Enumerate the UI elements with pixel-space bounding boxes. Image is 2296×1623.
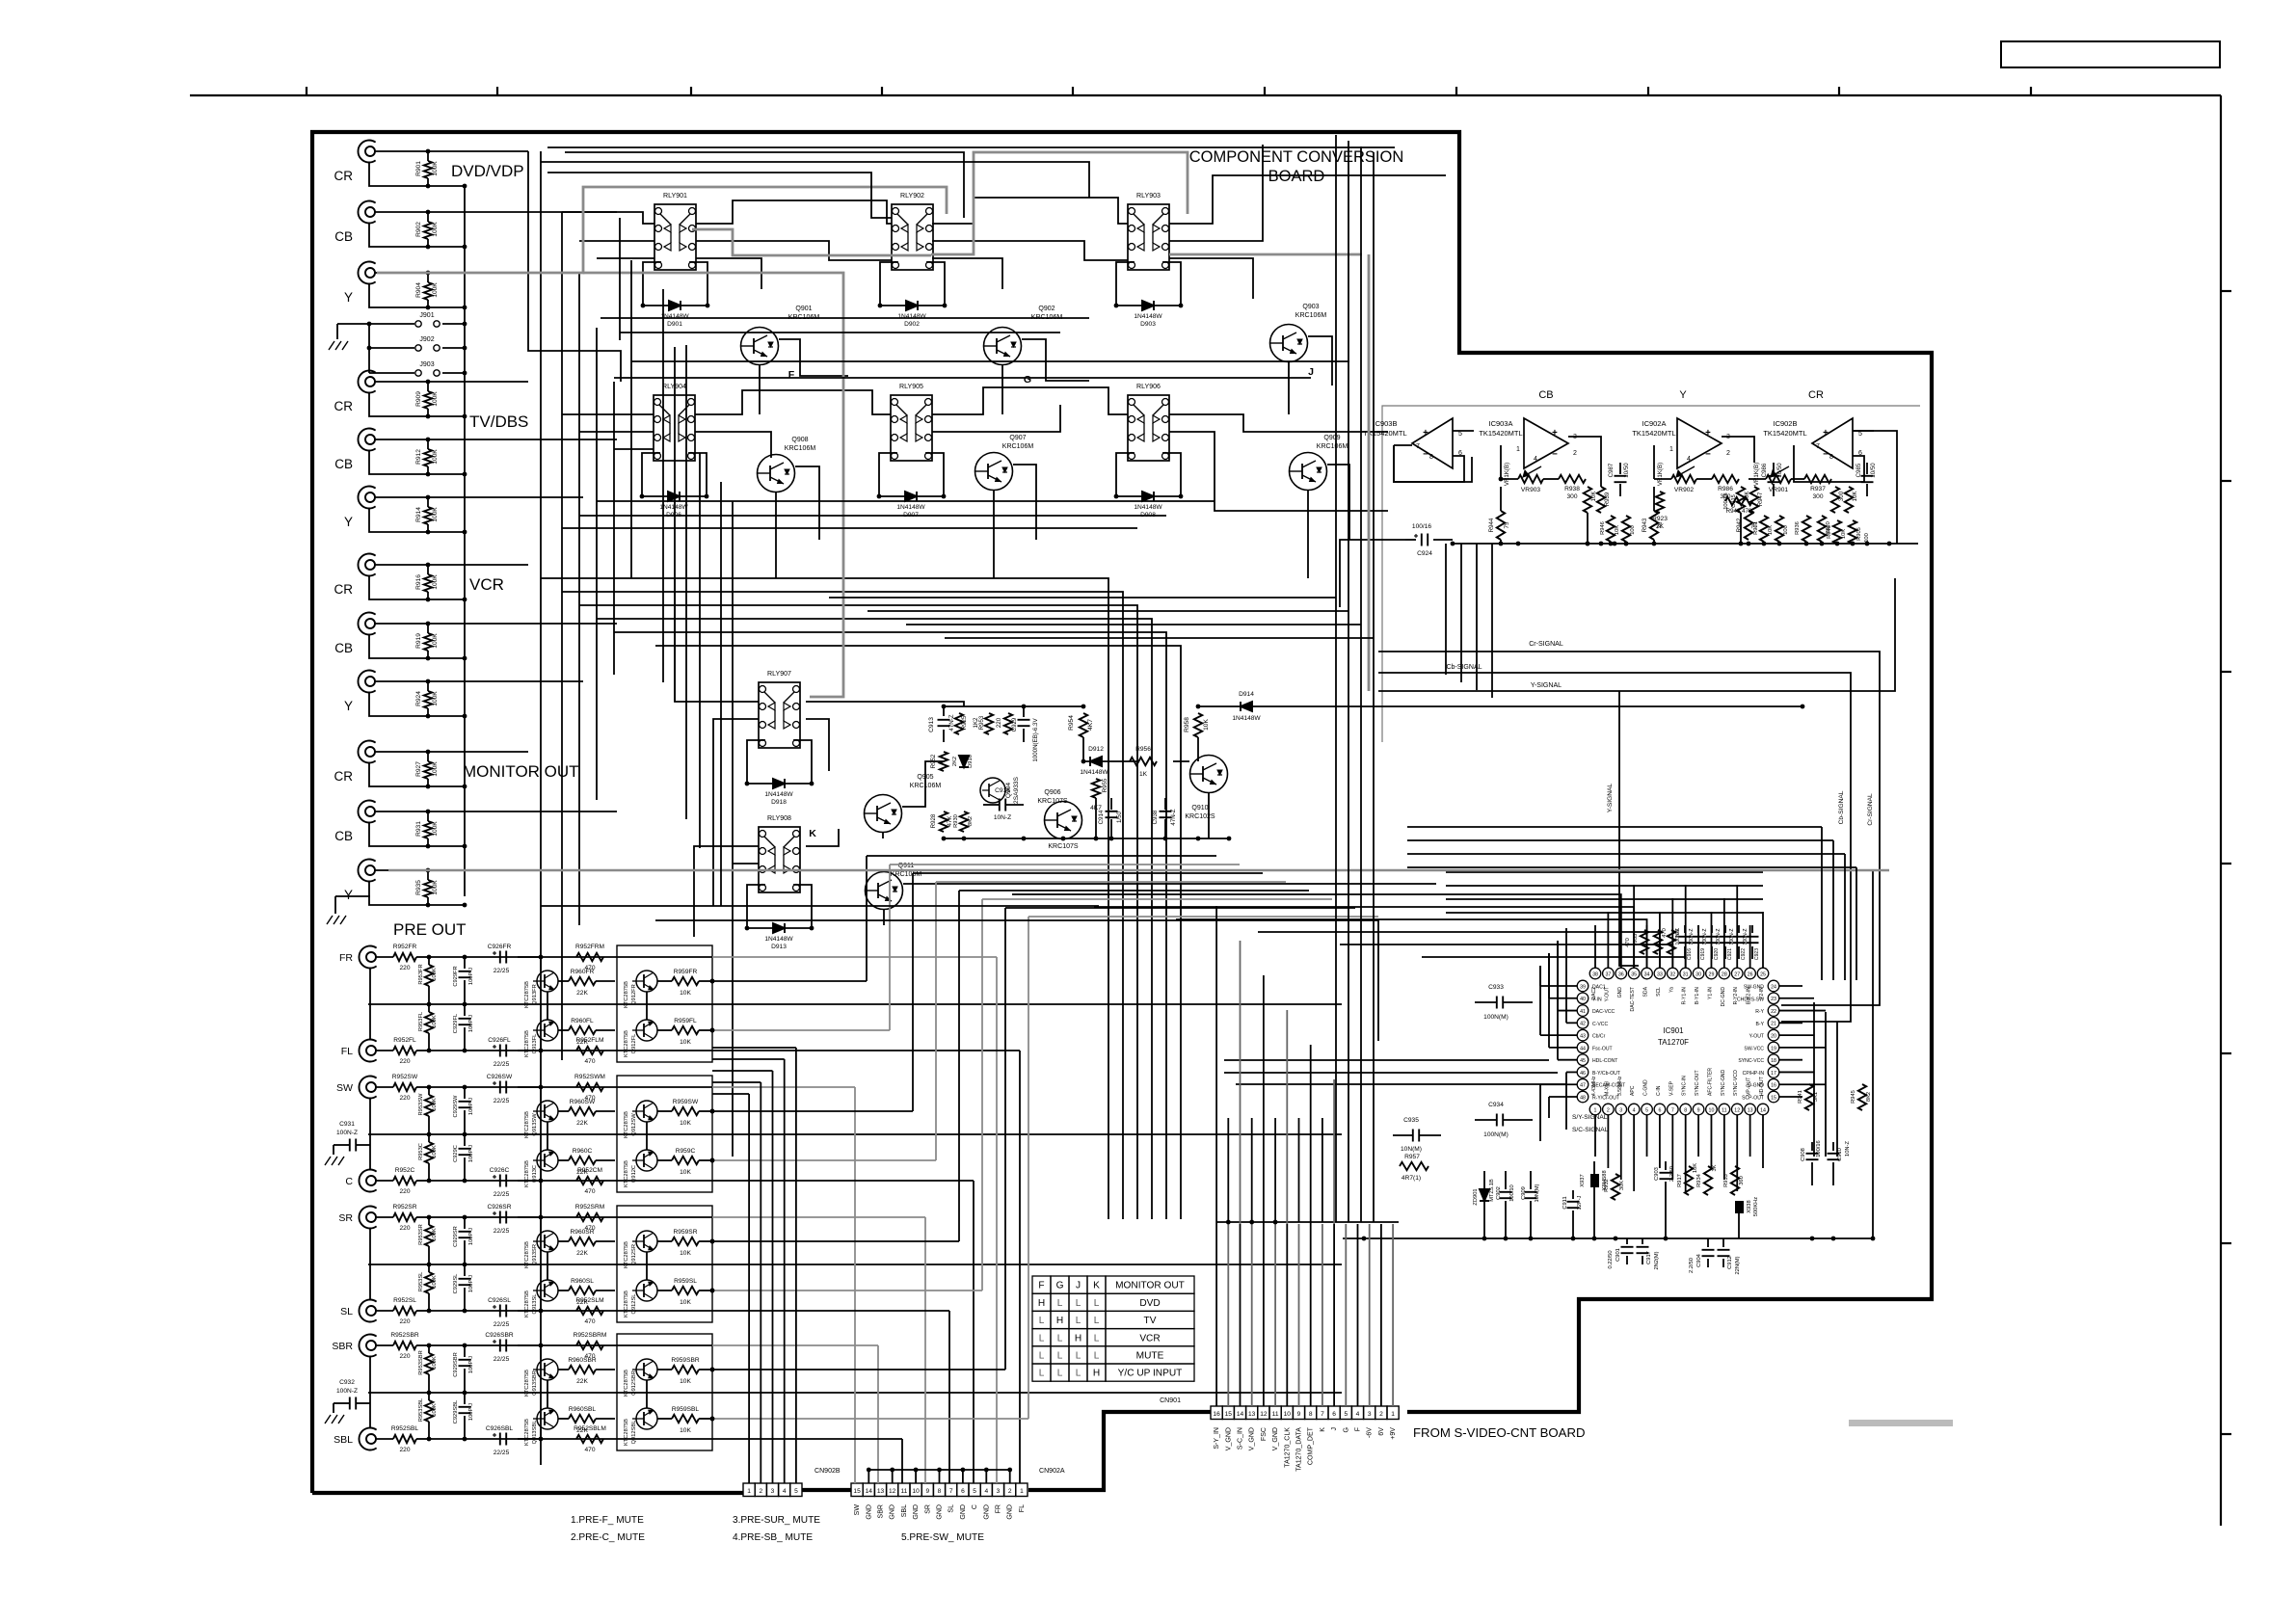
ground C932 — [333, 1403, 334, 1413]
svg-text:SBR: SBR — [332, 1341, 353, 1352]
wire — [369, 693, 465, 716]
svg-text:C922: C922 — [1741, 948, 1747, 960]
svg-text:GND: GND — [913, 1504, 920, 1520]
pin 5 — [1642, 1104, 1653, 1115]
transistor Q912SBL KTC2875B — [636, 1408, 657, 1429]
svg-text:C-VCC: C-VCC — [1592, 1022, 1608, 1027]
svg-text:C921: C921 — [1727, 948, 1733, 960]
svg-text:CB: CB — [334, 829, 353, 843]
svg-text:32: 32 — [1669, 971, 1675, 977]
svg-text:F: F — [1355, 1426, 1362, 1431]
wire — [375, 564, 528, 566]
transistor Q911 KRC105M — [866, 872, 903, 910]
svg-text:IC903B: IC903B — [1374, 419, 1398, 428]
resistor R917 10K — [1685, 1166, 1693, 1195]
capacitor C916 10N-Z — [999, 799, 1001, 811]
svg-text:B-Y: B-Y — [1756, 1022, 1765, 1027]
wires stage — [518, 1344, 541, 1346]
wire preout channel risers to CN902A — [712, 956, 997, 958]
svg-text:SCL: SCL — [1656, 987, 1662, 997]
diode D903 1N4148W — [1116, 305, 1181, 306]
svg-text:100/16: 100/16 — [1412, 523, 1432, 530]
wire black top h y179 — [547, 173, 892, 218]
wire IC left feed horizontals — [1224, 1059, 1549, 1061]
svg-text:R936: R936 — [1795, 521, 1801, 535]
wire feedback loop — [1853, 430, 1874, 432]
resistor R960SL 22K — [569, 1287, 596, 1294]
svg-text:Q910: Q910 — [1191, 805, 1208, 811]
svg-text:4K7: 4K7 — [1087, 719, 1094, 731]
wire horizontals relay row gap — [601, 317, 1089, 319]
svg-text:12: 12 — [1260, 1411, 1268, 1418]
transistor Q910 KRC102S — [1190, 756, 1228, 793]
svg-text:10/50: 10/50 — [1623, 463, 1630, 478]
capacitor C922 100N-Z — [1733, 936, 1746, 938]
capacitor C932 100N-Z — [349, 1397, 351, 1410]
svg-text:Y-SIGNAL: Y-SIGNAL — [1607, 784, 1614, 813]
RCA jack R901 input — [358, 141, 375, 163]
pin 42 — [1577, 1018, 1589, 1029]
capacitor C935 10N(M) — [1412, 1130, 1414, 1142]
svg-text:TV: TV — [1144, 1316, 1157, 1326]
wire — [369, 509, 465, 532]
wire RLY907 area links — [675, 578, 759, 702]
svg-text:10: 10 — [1284, 1411, 1292, 1418]
svg-text:COMP_DET: COMP_DET — [1308, 1426, 1315, 1465]
svg-text:D913: D913 — [771, 944, 787, 950]
capacitor C929SBL 100P-J — [459, 1406, 471, 1408]
diode D901 1N4148W — [643, 305, 707, 306]
wire Y-SIGNAL — [1378, 578, 1895, 691]
svg-text:SBL: SBL — [901, 1504, 908, 1517]
svg-text:Q912SR: Q912SR — [631, 1244, 637, 1265]
svg-text:Cr-SIGNAL: Cr-SIGNAL — [1867, 793, 1874, 826]
svg-text:1N4148W: 1N4148W — [1134, 504, 1162, 511]
svg-text:VCR: VCR — [1139, 1333, 1160, 1344]
svg-text:1000N(EB)-6.3V: 1000N(EB)-6.3V — [1032, 718, 1039, 762]
resistor R959FR 10K — [672, 977, 699, 985]
wire right vertical gnd — [1872, 870, 1874, 1238]
wire — [369, 823, 465, 846]
wire row2 inputs — [562, 413, 654, 415]
svg-text:34: 34 — [1644, 971, 1650, 977]
svg-text:D912: D912 — [1088, 746, 1104, 753]
svg-text:R946: R946 — [1827, 525, 1832, 539]
svg-text:220: 220 — [399, 1225, 410, 1232]
svg-text:22K: 22K — [576, 1120, 588, 1127]
svg-text:Q912C: Q912C — [631, 1165, 637, 1183]
svg-text:L: L — [1094, 1333, 1100, 1344]
svg-text:C913: C913 — [928, 717, 935, 732]
svg-text:R959C: R959C — [676, 1148, 696, 1155]
resistor R952SBRM 470 — [576, 1342, 603, 1349]
svg-text:7: 7 — [949, 1488, 953, 1495]
svg-text:100N(M): 100N(M) — [1483, 1131, 1508, 1138]
capacitor C933 100N(M) — [1496, 997, 1498, 1009]
svg-text:10K: 10K — [680, 1039, 691, 1046]
relay RLY904 — [654, 395, 695, 461]
resistor R960SBR 22K — [569, 1366, 596, 1373]
svg-text:5.PRE-SW_ MUTE: 5.PRE-SW_ MUTE — [901, 1532, 984, 1543]
pin 14 — [1757, 1104, 1769, 1115]
RCA jack SW — [359, 1077, 376, 1099]
wire bundle verticals to CN901 — [1215, 1224, 1217, 1406]
svg-text:C924: C924 — [1417, 550, 1432, 557]
svg-text:100P-J: 100P-J — [468, 968, 474, 985]
svg-text:CR: CR — [334, 582, 354, 597]
svg-text:L: L — [1076, 1369, 1081, 1379]
svg-text:J: J — [1076, 1281, 1081, 1291]
svg-text:2: 2 — [1008, 1488, 1012, 1495]
svg-text:C933: C933 — [1488, 984, 1504, 991]
svg-text:SBR: SBR — [878, 1504, 885, 1518]
svg-text:C: C — [345, 1176, 353, 1187]
resistor R959SL 10K — [672, 1287, 699, 1294]
resistor R902 100K — [427, 212, 429, 222]
resistor R953SL 100K — [425, 1272, 433, 1293]
op-amp IC903A TK15420MTL — [1524, 418, 1568, 468]
svg-text:1: 1 — [1669, 446, 1673, 453]
svg-text:Q912SBL: Q912SBL — [631, 1421, 637, 1445]
wire CN901 riser joins — [1216, 1221, 1399, 1223]
svg-text:12P-J: 12P-J — [1577, 1195, 1583, 1210]
svg-text:1: 1 — [1516, 446, 1520, 453]
RCA jack R902 input — [358, 201, 375, 224]
svg-text:TK15420MTL: TK15420MTL — [1763, 429, 1806, 438]
svg-text:47N-Z: 47N-Z — [948, 714, 955, 731]
resistor 10K v — [1845, 487, 1853, 513]
capacitor C938 47N-Z — [1160, 811, 1172, 812]
svg-text:C923: C923 — [1754, 948, 1760, 960]
svg-text:220: 220 — [399, 1318, 410, 1325]
capacitor C901 0.22/50 — [1621, 1246, 1634, 1248]
svg-text:KTC2875B: KTC2875B — [524, 981, 530, 1008]
svg-text:100P-J: 100P-J — [468, 1015, 474, 1032]
wire bus x637 — [613, 382, 615, 675]
transistor Q912SR KTC2875B — [636, 1231, 657, 1252]
svg-text:J: J — [1331, 1427, 1338, 1431]
svg-text:39: 39 — [1580, 984, 1586, 990]
svg-text:Q901: Q901 — [795, 306, 812, 312]
capacitor C926FL 22/25 — [499, 1045, 501, 1057]
svg-text:19: 19 — [1771, 1046, 1776, 1051]
svg-text:SBL: SBL — [334, 1434, 353, 1446]
resistor R941 5K1 — [1805, 1084, 1813, 1110]
svg-text:L: L — [1094, 1351, 1100, 1362]
capacitor C926SL 22/25 — [499, 1305, 501, 1317]
wire channel rails — [432, 1086, 712, 1088]
svg-text:Cb/Cr: Cb/Cr — [1592, 1034, 1606, 1040]
svg-text:CB: CB — [334, 641, 353, 655]
svg-text:J903: J903 — [419, 361, 434, 368]
svg-text:FR: FR — [339, 952, 353, 964]
pin 21 — [1768, 1018, 1779, 1029]
svg-text:13: 13 — [1748, 1107, 1753, 1113]
wire gray path to opamps — [1368, 254, 1371, 691]
svg-text:4: 4 — [1356, 1411, 1360, 1418]
wire gray path relay1 out — [692, 229, 931, 255]
svg-text:47K: 47K — [947, 815, 953, 827]
svg-text:J902: J902 — [419, 336, 434, 343]
svg-text:1N4148W: 1N4148W — [1134, 313, 1162, 320]
gray revision bar — [1849, 1420, 1953, 1426]
wire Cb-SIGNAL — [1378, 673, 1851, 1022]
wire gray path relay3 out — [1169, 253, 1362, 256]
capacitor C916 100N-Z — [1679, 936, 1692, 938]
wire IC901 right stubs — [1779, 985, 1802, 987]
resistor R904 100K — [427, 273, 429, 282]
svg-text:100P-J: 100P-J — [468, 1356, 474, 1373]
svg-text:CN902A: CN902A — [1039, 1468, 1065, 1475]
wire channel rails — [432, 956, 712, 958]
svg-text:45: 45 — [1580, 1058, 1586, 1064]
svg-text:Y: Y — [344, 699, 353, 713]
svg-text:2.2/50: 2.2/50 — [1689, 1258, 1695, 1273]
svg-text:Y/C UP INPUT: Y/C UP INPUT — [1118, 1369, 1183, 1379]
transistor Q912C KTC2875B — [636, 1150, 657, 1171]
svg-text:C929SBR: C929SBR — [453, 1352, 459, 1376]
svg-text:10K: 10K — [680, 1427, 691, 1434]
svg-text:10K: 10K — [680, 1299, 691, 1306]
svg-text:4R7(1): 4R7(1) — [1402, 1175, 1421, 1182]
svg-text:R912: R912 — [415, 449, 422, 465]
wire — [369, 224, 465, 247]
svg-text:100N-Z: 100N-Z — [1702, 929, 1708, 945]
pin 43 — [1577, 1029, 1589, 1041]
relay RLY901 — [654, 204, 696, 270]
svg-text:TK15420MTL: TK15420MTL — [1479, 429, 1522, 438]
capacitor C929FL 100P-J — [459, 1018, 471, 1020]
svg-text:APC: APC — [1630, 1085, 1636, 1096]
svg-text:5: 5 — [1645, 1107, 1648, 1113]
pin 18 — [1768, 1054, 1779, 1066]
svg-text:22K: 22K — [576, 1250, 588, 1257]
wire top h1 — [528, 151, 621, 382]
wire relay to diode — [1116, 453, 1135, 496]
wire row2 to bundle — [597, 500, 1215, 502]
RCA jack R912 input — [358, 429, 375, 451]
resistor 10K vertical — [1737, 487, 1745, 513]
diode D908 1N4148W — [1116, 495, 1181, 497]
wire RLY901 right to RLY902 — [696, 200, 892, 224]
resistor R957 4R7(1) — [1400, 1162, 1428, 1170]
svg-text:220: 220 — [399, 1188, 410, 1195]
frame top ticks — [306, 87, 307, 95]
svg-text:K: K — [809, 828, 816, 839]
svg-text:R923: R923 — [1652, 516, 1668, 522]
svg-text:R953: R953 — [978, 715, 985, 730]
resistor R932 30K — [1612, 1174, 1619, 1200]
svg-text:KTC2875B: KTC2875B — [524, 1160, 530, 1187]
wire IC right verticals — [1813, 1002, 1815, 1157]
svg-text:FSC: FSC — [1261, 1427, 1268, 1441]
pin 40 — [1577, 993, 1589, 1004]
resistor R952SBLM 470 — [576, 1435, 603, 1443]
svg-text:6V: 6V — [1378, 1427, 1385, 1436]
transistor Q903 KRC106M — [1270, 325, 1308, 362]
svg-text:C931: C931 — [339, 1121, 355, 1128]
svg-text:DVD/VDP: DVD/VDP — [451, 162, 524, 180]
svg-text:5: 5 — [794, 1488, 798, 1495]
svg-text:10K: 10K — [1841, 529, 1847, 539]
svg-text:220: 220 — [399, 1353, 410, 1360]
block rect — [617, 1076, 712, 1192]
svg-text:SYNC-VCO: SYNC-VCO — [1733, 1070, 1739, 1096]
svg-text:L: L — [1039, 1333, 1045, 1344]
svg-text:100N-Z: 100N-Z — [1716, 929, 1722, 945]
svg-text:100K: 100K — [432, 1098, 438, 1111]
svg-text:R953SL: R953SL — [418, 1272, 424, 1292]
svg-text:KRC106M: KRC106M — [1295, 312, 1327, 319]
svg-text:R953SR: R953SR — [418, 1224, 424, 1245]
svg-text:14: 14 — [1760, 1107, 1766, 1113]
svg-text:15: 15 — [1771, 1095, 1776, 1101]
wire relay to diode — [642, 453, 660, 496]
svg-text:22/25: 22/25 — [494, 968, 510, 974]
svg-text:SW-VCC: SW-VCC — [1744, 1046, 1764, 1051]
svg-text:22: 22 — [1771, 1009, 1776, 1015]
svg-text:SW-GND: SW-GND — [1744, 985, 1764, 991]
transistor Q913FL KTC2875B — [537, 1020, 558, 1041]
capacitor C926SW 22/25 — [499, 1081, 501, 1094]
svg-text:13: 13 — [1248, 1411, 1256, 1418]
svg-text:SYNC-OUT: SYNC-OUT — [1695, 1070, 1700, 1096]
resistor R927 100K — [427, 752, 429, 761]
wire — [375, 751, 528, 753]
svg-text:100K: 100K — [432, 761, 439, 777]
svg-text:R945: R945 — [1851, 1090, 1856, 1104]
svg-text:GND: GND — [866, 1504, 872, 1520]
svg-text:300: 300 — [1812, 493, 1823, 500]
svg-text:100P-J: 100P-J — [468, 1403, 474, 1421]
svg-text:D918: D918 — [771, 799, 787, 806]
svg-text:KTC2875B: KTC2875B — [524, 1111, 530, 1138]
svg-text:D902: D902 — [904, 321, 920, 328]
svg-text:470: 470 — [584, 1225, 595, 1232]
svg-text:6: 6 — [1332, 1411, 1336, 1418]
svg-text:Q912SL: Q912SL — [631, 1294, 637, 1315]
resistor R960SR 22K — [569, 1237, 596, 1245]
diode D906 1N4148W — [642, 495, 707, 497]
svg-text:100P-J: 100P-J — [468, 1228, 474, 1245]
resistor J933 470 — [1641, 930, 1648, 954]
resistor 100 v — [1775, 516, 1783, 542]
svg-text:10K: 10K — [1852, 491, 1858, 502]
svg-text:B-Y1-IN: B-Y1-IN — [1695, 987, 1700, 1004]
svg-text:100K: 100K — [432, 633, 439, 649]
svg-text:R909: R909 — [415, 391, 422, 407]
svg-text:Y-OUT: Y-OUT — [1749, 1034, 1764, 1040]
svg-text:R-Y1-IN: R-Y1-IN — [1682, 987, 1688, 1005]
svg-text:L: L — [1057, 1351, 1063, 1362]
svg-text:4: 4 — [1534, 456, 1537, 463]
svg-text:28: 28 — [1722, 971, 1727, 977]
svg-text:7: 7 — [1416, 443, 1420, 450]
resistor R959SW 10K — [672, 1107, 699, 1115]
svg-text:R914: R914 — [415, 507, 422, 522]
resistor R936 — [1802, 516, 1810, 542]
svg-text:100K: 100K — [432, 880, 439, 895]
resistor R920 — [1818, 516, 1826, 542]
svg-text:−: − — [1552, 449, 1558, 460]
svg-text:6: 6 — [1658, 1107, 1661, 1113]
svg-text:Fsc-OUT: Fsc-OUT — [1592, 1046, 1613, 1051]
wire misc gray routes — [388, 869, 1889, 872]
svg-text:C985: C985 — [1855, 463, 1862, 477]
svg-text:R959SR: R959SR — [674, 1229, 698, 1236]
svg-text:1N4148W: 1N4148W — [764, 791, 793, 798]
svg-text:R952SBR: R952SBR — [390, 1332, 419, 1339]
relay RLY902 — [892, 204, 933, 270]
diode D912 1N4148W — [1083, 760, 1137, 762]
svg-text:IC903A: IC903A — [1489, 419, 1513, 428]
wire — [375, 150, 528, 152]
RCA jack R916 input — [358, 554, 375, 576]
pin 2 — [1603, 1104, 1615, 1115]
resistor 10K v2 — [1760, 516, 1768, 542]
capacitor C913 — [938, 719, 950, 721]
svg-text:10/50: 10/50 — [1870, 463, 1877, 478]
pin 29 — [1706, 968, 1718, 979]
svg-text:20: 20 — [1771, 1034, 1776, 1040]
svg-text:C926SBL: C926SBL — [486, 1425, 514, 1432]
svg-text:15: 15 — [1225, 1411, 1233, 1418]
ground C931 — [333, 1145, 334, 1155]
svg-text:R-Y/Cr-OUT: R-Y/Cr-OUT — [1592, 1096, 1619, 1102]
svg-text:GND: GND — [1617, 987, 1623, 998]
frame right line — [2220, 95, 2222, 1526]
resistor R952SLM 470 — [576, 1307, 603, 1315]
svg-text:10K: 10K — [680, 1169, 691, 1176]
svg-text:C916: C916 — [995, 787, 1010, 794]
svg-text:R986: R986 — [1718, 486, 1733, 492]
svg-text:C904: C904 — [1696, 1253, 1702, 1266]
svg-text:KRC107S: KRC107S — [1037, 798, 1068, 805]
wire bus x482 — [464, 186, 466, 896]
wire — [375, 811, 617, 812]
svg-text:5: 5 — [1344, 1411, 1348, 1418]
resistor R960C 22K — [569, 1157, 596, 1164]
ground at jumpers — [336, 324, 338, 339]
svg-text:R957: R957 — [1404, 1154, 1420, 1160]
svg-text:10: 10 — [912, 1488, 920, 1495]
resistor R954 4K7 — [1080, 713, 1087, 737]
svg-text:10N(M): 10N(M) — [1535, 1184, 1540, 1202]
svg-text:Q911: Q911 — [898, 863, 915, 869]
pin 20 — [1768, 1029, 1779, 1041]
diode D914 1N4148W — [1198, 705, 1321, 707]
wire relay to diode — [643, 262, 661, 306]
wire K transistor — [882, 833, 884, 838]
wire opamp bottom bus — [1453, 543, 1918, 545]
resistor R924 100K — [427, 681, 429, 691]
svg-text:100K: 100K — [432, 821, 439, 837]
svg-text:G: G — [1343, 1427, 1349, 1432]
svg-text:R932: R932 — [1604, 1179, 1610, 1192]
svg-text:R935: R935 — [415, 880, 422, 895]
svg-text:1N4148W: 1N4148W — [660, 313, 689, 320]
svg-text:S/C-SIGNAL: S/C-SIGNAL — [1572, 1127, 1609, 1133]
svg-text:C902: C902 — [1496, 1186, 1502, 1200]
svg-text:1K: 1K — [1139, 771, 1148, 778]
svg-text:DAC-VCC: DAC-VCC — [1592, 1009, 1615, 1015]
svg-text:C932: C932 — [339, 1379, 355, 1386]
wire Q911 — [903, 883, 1436, 885]
capacitor C931 100N-Z — [349, 1139, 351, 1152]
resistor R905 100 — [1849, 520, 1856, 544]
resistor R915 10K — [1668, 930, 1675, 954]
svg-text:SR: SR — [924, 1504, 931, 1514]
